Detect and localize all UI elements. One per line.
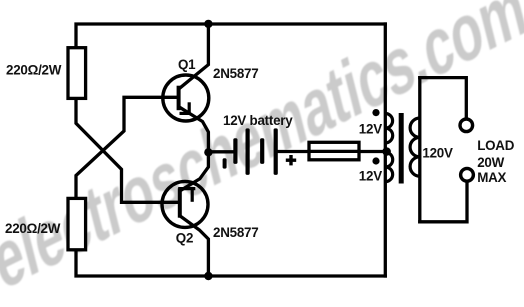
svg-text:LOAD: LOAD	[477, 138, 515, 153]
svg-text:MAX: MAX	[477, 170, 506, 185]
svg-text:120V: 120V	[422, 146, 453, 161]
svg-text:Q2: Q2	[176, 231, 193, 246]
svg-text:2N5877: 2N5877	[213, 225, 258, 240]
svg-text:Q1: Q1	[178, 57, 196, 72]
svg-text:220Ω/2W: 220Ω/2W	[5, 221, 61, 236]
svg-text:220Ω/2W: 220Ω/2W	[6, 63, 62, 78]
svg-text:12V: 12V	[359, 122, 382, 137]
svg-text:12V battery: 12V battery	[223, 113, 293, 128]
svg-text:12V: 12V	[359, 169, 382, 184]
svg-text:20W: 20W	[477, 155, 504, 170]
svg-text:2N5877: 2N5877	[213, 66, 258, 81]
